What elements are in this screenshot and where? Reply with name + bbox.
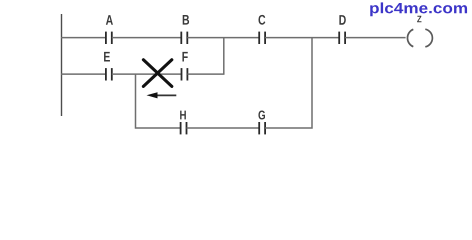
left power rail <box>61 14 63 116</box>
contact F <box>182 68 188 80</box>
contact D <box>339 32 345 44</box>
label D <box>339 15 345 25</box>
contact B <box>181 32 187 44</box>
wire junction: rung1 down to rung2 after B/F <box>223 38 225 75</box>
wire rung1: rail to contact A <box>61 37 106 39</box>
wire rung1: C to D <box>265 37 339 39</box>
label F <box>182 52 187 62</box>
contact A <box>106 32 112 44</box>
wire rung3: G up to rung1 between C and D <box>265 38 312 128</box>
label E <box>104 52 110 62</box>
wire rung2: rail to contact E <box>61 73 106 75</box>
label G <box>258 110 265 119</box>
label Z <box>417 16 421 23</box>
coil Z <box>407 29 432 47</box>
label C <box>258 15 265 25</box>
delete cross X over E-F wire <box>143 60 171 87</box>
label H <box>180 111 186 120</box>
contact G <box>259 122 265 134</box>
wire rung1: D to coil <box>345 37 406 39</box>
wire rung3: H to G <box>187 127 260 129</box>
wire rung2: E to F <box>112 73 182 75</box>
wire rung1: A to B <box>112 37 182 39</box>
wire rung2: F to junction up <box>187 73 224 75</box>
wire junction: rung2 down to rung3 <box>136 74 181 128</box>
contact C <box>259 32 265 44</box>
wire rung1: B to C <box>187 37 259 39</box>
contact E <box>106 68 112 80</box>
label A <box>106 15 113 25</box>
contact H <box>181 122 187 134</box>
label B <box>183 15 189 25</box>
move-left arrow under X <box>147 92 177 98</box>
watermark plc4me.com <box>370 2 467 16</box>
